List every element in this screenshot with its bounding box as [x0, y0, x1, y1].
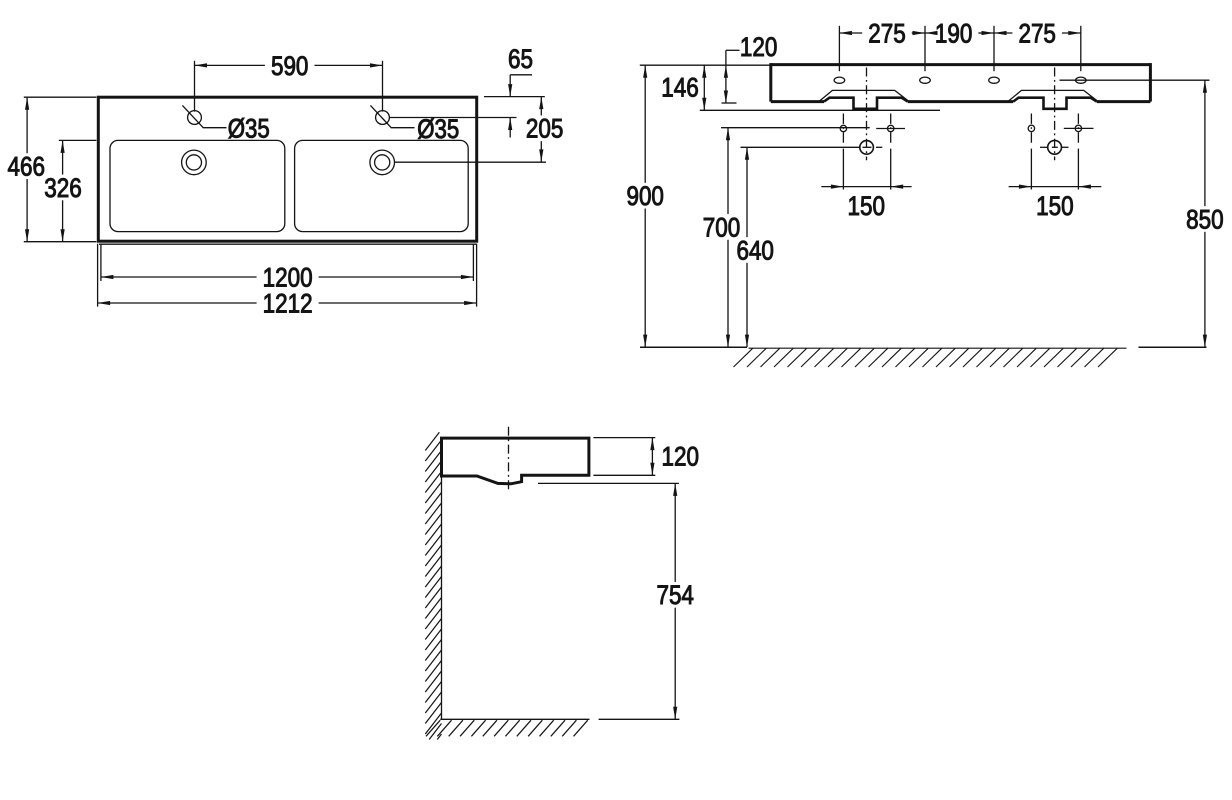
- svg-text:Ø35: Ø35: [228, 114, 270, 144]
- svg-text:900: 900: [626, 181, 664, 211]
- svg-text:850: 850: [1186, 204, 1224, 234]
- svg-text:205: 205: [526, 114, 564, 144]
- svg-text:326: 326: [44, 173, 82, 203]
- svg-text:754: 754: [656, 580, 694, 610]
- svg-text:275: 275: [1018, 18, 1056, 48]
- svg-text:275: 275: [868, 18, 906, 48]
- svg-text:146: 146: [661, 73, 699, 103]
- svg-text:640: 640: [736, 235, 774, 265]
- svg-text:150: 150: [1036, 191, 1074, 221]
- svg-text:1212: 1212: [263, 288, 313, 318]
- svg-text:150: 150: [848, 191, 886, 221]
- svg-text:Ø35: Ø35: [417, 114, 459, 144]
- svg-text:590: 590: [271, 51, 309, 81]
- svg-text:65: 65: [508, 44, 533, 74]
- svg-text:700: 700: [703, 212, 741, 242]
- svg-text:190: 190: [935, 18, 973, 48]
- svg-text:120: 120: [662, 441, 700, 471]
- svg-text:120: 120: [740, 32, 778, 62]
- svg-text:466: 466: [8, 152, 46, 182]
